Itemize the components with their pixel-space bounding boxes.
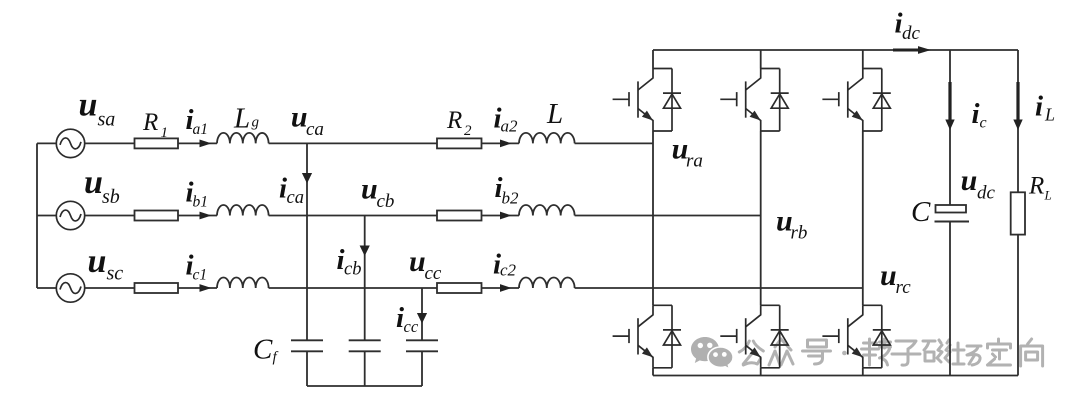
- svg-text:1: 1: [161, 125, 169, 141]
- svg-text:u: u: [880, 259, 897, 292]
- svg-text:rb: rb: [791, 223, 808, 244]
- arrow i_c1: [200, 284, 212, 292]
- svg-text:R: R: [446, 107, 462, 134]
- label i_c1: [186, 250, 208, 284]
- wire: bus to source b: [37, 215, 56, 217]
- label i_a1: [186, 104, 209, 138]
- wire: source b to R1b: [85, 215, 134, 217]
- wire: Lg to R2 through node u_ca: [269, 142, 437, 144]
- arrow i_cc: [417, 313, 427, 324]
- label R1: [142, 109, 168, 141]
- svg-text:ca: ca: [306, 119, 324, 140]
- wire: Lc2 to bridge leg c: [575, 287, 863, 289]
- wire: Lgc to R2c through node u_cc: [269, 287, 437, 289]
- wire: left vertical bus: [36, 143, 38, 288]
- label i_c: [972, 98, 987, 132]
- wire: source a to R1: [85, 142, 134, 144]
- arrow i_b2: [500, 212, 512, 220]
- capacitor Cf phase a: [291, 340, 323, 351]
- wire: L to bridge leg a: [575, 142, 653, 144]
- arrow i_ca: [302, 173, 312, 184]
- arrow i_a2: [500, 140, 512, 148]
- svg-text:c1: c1: [193, 267, 208, 284]
- arrow i_dc: [893, 46, 931, 54]
- wire: leg b trunk: [760, 50, 762, 376]
- svg-text:u: u: [84, 164, 103, 201]
- transistor S2 (lower leg c IGBT+diode): [822, 305, 890, 368]
- source u_sb: [56, 201, 84, 229]
- transistor S5 (upper leg c IGBT+diode): [822, 69, 890, 132]
- wire: filter column b: [364, 216, 366, 341]
- watermark text GONG: [739, 341, 763, 365]
- watermark text CI: [923, 340, 950, 362]
- resistor R1 phase b: [135, 211, 179, 221]
- resistor R2 phase b: [437, 211, 482, 221]
- watermark text CHANG: [953, 343, 981, 365]
- wire: Lb2 to bridge leg b: [575, 215, 761, 217]
- watermark text DING: [988, 339, 1011, 365]
- svg-text:ra: ra: [686, 151, 703, 172]
- wire: Lgb to R2b through node u_cb: [269, 215, 437, 217]
- wire: source c to R1c: [85, 287, 134, 289]
- wire: load branch lower: [1017, 235, 1019, 376]
- wire: DC positive rail: [653, 49, 1018, 51]
- svg-text:sb: sb: [102, 186, 120, 208]
- resistor R2 phase c: [437, 283, 482, 293]
- svg-text:a2: a2: [501, 117, 519, 136]
- svg-text:u: u: [88, 243, 107, 280]
- label i_c2: [493, 249, 517, 281]
- wire: cap c to neutral bus: [421, 351, 423, 386]
- arrow i_c2: [500, 284, 512, 292]
- svg-text:c2: c2: [500, 261, 517, 280]
- wire: load branch upper: [1017, 50, 1019, 192]
- label i_a2: [494, 103, 519, 136]
- label u_rb: [776, 205, 807, 244]
- svg-text:c: c: [980, 115, 987, 132]
- source u_sa: [56, 129, 84, 157]
- watermark text separator dot: [842, 351, 847, 356]
- label i_b1: [186, 177, 209, 211]
- label i_cc: [396, 302, 419, 336]
- svg-text:R: R: [1028, 173, 1044, 200]
- svg-text:rc: rc: [896, 277, 912, 298]
- watermark text ZI: [892, 341, 920, 365]
- wire: DC capacitor branch upper: [949, 50, 951, 205]
- svg-text:u: u: [409, 245, 426, 278]
- wire: DC capacitor branch lower: [949, 222, 951, 376]
- label u_cc: [409, 245, 442, 284]
- svg-text:g: g: [252, 115, 260, 131]
- wire: cap a to neutral bus: [306, 351, 308, 386]
- inductor L phase c: [519, 278, 575, 289]
- svg-text:2: 2: [464, 123, 472, 139]
- wire: R2 to L with arrow: [482, 142, 520, 144]
- svg-text:cb: cb: [344, 260, 361, 280]
- label R2: [446, 107, 472, 139]
- watermark wechat logo: [691, 337, 733, 369]
- svg-text:cb: cb: [377, 191, 395, 212]
- wire: R1b to Lb with arrow: [178, 215, 217, 217]
- watermark text XIANG: [1021, 339, 1043, 366]
- label u_rc: [880, 259, 911, 298]
- label i_b2: [495, 172, 520, 208]
- capacitor Cf phase b: [349, 340, 381, 351]
- arrow i_a1: [200, 140, 212, 148]
- label u_sa: [79, 87, 116, 131]
- label Cf: [253, 334, 279, 366]
- label i_dc: [895, 8, 921, 45]
- label u_ca: [291, 100, 324, 140]
- arrow i_L: [1013, 82, 1022, 130]
- svg-text:b2: b2: [502, 189, 520, 208]
- transistor S3 (upper leg b IGBT+diode): [720, 69, 788, 132]
- svg-text:u: u: [79, 87, 98, 124]
- svg-text:dc: dc: [977, 183, 996, 204]
- label u_sb: [84, 164, 120, 208]
- svg-text:L: L: [1044, 188, 1052, 203]
- label i_ca: [279, 173, 304, 209]
- resistor R2: [437, 138, 482, 148]
- label RL: [1028, 173, 1052, 203]
- resistor R1: [135, 138, 179, 148]
- svg-text:sa: sa: [98, 109, 116, 131]
- label C: [911, 196, 931, 228]
- svg-text:C: C: [911, 196, 931, 228]
- label i_L: [1035, 91, 1055, 125]
- wire: DC negative rail: [653, 375, 1018, 377]
- wire: leg c trunk: [862, 50, 864, 376]
- label u_cb: [361, 173, 394, 213]
- svg-text:C: C: [253, 334, 273, 366]
- svg-text:u: u: [961, 164, 978, 197]
- svg-text:i: i: [1035, 91, 1043, 123]
- svg-text:b1: b1: [193, 194, 209, 211]
- label Lg: [233, 103, 260, 135]
- label L: [546, 98, 563, 130]
- wire: leg a trunk: [652, 50, 654, 376]
- wire: R1 to Lg with current arrow: [178, 142, 217, 144]
- arrow i_b1: [200, 212, 212, 220]
- inductor L phase a: [519, 133, 575, 144]
- svg-text:L: L: [233, 103, 250, 135]
- watermark text ZHUAN: [862, 339, 891, 365]
- source u_sc: [56, 274, 84, 302]
- transistor S1 (upper leg a IGBT+diode): [613, 69, 681, 132]
- wire: bus to source c: [37, 287, 56, 289]
- svg-text:dc: dc: [902, 23, 921, 44]
- svg-text:ca: ca: [287, 188, 304, 208]
- label u_dc: [961, 164, 996, 204]
- capacitor C (dc link): [935, 205, 970, 222]
- transistor S6 (lower leg b IGBT+diode): [720, 305, 788, 368]
- svg-text:a1: a1: [193, 121, 209, 138]
- svg-text:L: L: [546, 98, 563, 130]
- wire: cap b to neutral bus: [364, 351, 366, 386]
- wire: filter column a: [306, 143, 308, 340]
- wire: R1c to Lc with arrow: [178, 287, 217, 289]
- svg-text:f: f: [273, 350, 279, 366]
- svg-text:L: L: [1044, 105, 1055, 125]
- watermark text ZHONG: [769, 339, 793, 365]
- arrow i_cb: [360, 246, 370, 257]
- inductor Lg phase c: [217, 278, 269, 289]
- resistor R1 phase c: [135, 283, 179, 293]
- inductor Lg phase b: [217, 205, 269, 216]
- capacitor Cf phase c: [406, 340, 438, 351]
- svg-text:sc: sc: [107, 263, 124, 285]
- svg-text:cc: cc: [404, 317, 419, 336]
- wire: R2c to Lc2 with arrow: [482, 287, 520, 289]
- inductor Lg phase a: [217, 133, 269, 144]
- svg-text:cc: cc: [425, 263, 442, 284]
- label i_cb: [337, 244, 362, 280]
- resistor RL (load): [1011, 192, 1025, 234]
- inductor L phase b: [519, 205, 575, 216]
- label u_sc: [88, 243, 124, 285]
- svg-text:u: u: [361, 173, 378, 206]
- wire: R2b to Lb2 with arrow: [482, 215, 520, 217]
- arrow i_c: [945, 82, 954, 130]
- wire: bus to source a: [37, 142, 56, 144]
- svg-text:R: R: [142, 109, 158, 136]
- transistor S4 (lower leg a IGBT+diode): [613, 305, 681, 368]
- watermark text HAO: [803, 340, 831, 364]
- label u_ra: [672, 133, 703, 172]
- wire: neutral bus: [307, 385, 422, 387]
- wire: filter column c: [421, 288, 423, 340]
- svg-text:i: i: [972, 98, 980, 130]
